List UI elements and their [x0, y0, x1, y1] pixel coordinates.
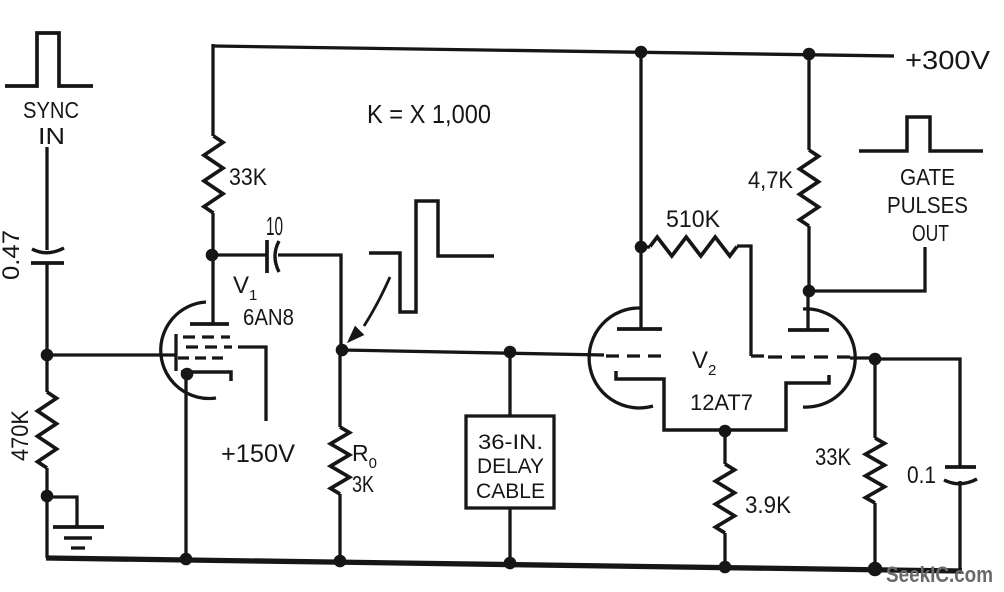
node delay bus junction	[504, 557, 517, 570]
V1 grid bracket	[174, 334, 177, 371]
capacitor C1 0.47	[31, 248, 64, 263]
resistor 33K plate load	[204, 136, 223, 213]
node delay junction	[504, 346, 517, 359]
wire box to bus	[508, 508, 511, 564]
node 510K tap	[635, 241, 648, 254]
svg-text:+150V: +150V	[221, 440, 295, 468]
svg-text:CABLE: CABLE	[476, 480, 545, 503]
differentiated pulse waveform	[369, 201, 494, 312]
svg-text:PULSES: PULSES	[887, 192, 968, 218]
resistor R 470K	[38, 355, 57, 497]
svg-text:470K: 470K	[7, 410, 34, 461]
wire 33K to bus	[873, 503, 876, 570]
wire node B to delay node	[342, 350, 604, 355]
node R0 bus junction	[334, 555, 347, 568]
wire grid node to V1 grid	[47, 353, 176, 356]
resistor 4.7K	[800, 150, 819, 226]
resistor 3.9K	[716, 464, 735, 533]
node rail-4.7K junction	[803, 48, 816, 61]
svg-text:12AT7: 12AT7	[690, 390, 753, 415]
wire 4.7K to gate node	[807, 226, 810, 291]
wire plate node to coupling cap	[212, 253, 267, 256]
node rail-V2 left plate	[635, 46, 648, 59]
node V2 cathode junction	[719, 425, 732, 438]
node grid-left junction	[41, 349, 54, 362]
V2 left cathode	[616, 371, 726, 430]
wire +300V top rail	[213, 46, 894, 56]
tube V2 right envelope arc	[803, 309, 855, 407]
wire grid node to 33K	[873, 359, 876, 438]
wire grid node to 0.1 cap	[875, 359, 960, 467]
capacitor coupling 10	[267, 240, 279, 273]
resistor 33K right	[866, 438, 885, 503]
resistor R0 3K	[331, 427, 350, 494]
svg-text:R0: R0	[352, 440, 377, 472]
svg-text:0.47: 0.47	[0, 230, 25, 280]
wire 510K to right grid	[737, 246, 751, 356]
wire 0.1 cap to bus	[958, 481, 961, 572]
V2 left plate	[617, 327, 662, 331]
svg-text:OUT: OUT	[912, 220, 949, 246]
tube V1 envelope arc	[161, 302, 216, 399]
sync input pulse waveform	[5, 33, 93, 86]
V1 grid dashes row2	[186, 345, 232, 348]
wire gate label to gate node	[809, 247, 925, 291]
wire rail corner to 33K	[211, 44, 214, 136]
V1 screen grid lead	[238, 347, 266, 421]
wire 3.9K to bus	[723, 533, 726, 568]
node gate output junction	[803, 285, 816, 298]
svg-text:33K: 33K	[815, 444, 851, 471]
wire R0 to bus	[338, 494, 341, 562]
svg-text:510K: 510K	[666, 206, 720, 233]
wire cap to node B	[278, 255, 341, 350]
wire node B to R0	[338, 350, 341, 427]
node V1 plate junction	[206, 249, 219, 262]
wire V1 cathode to bus	[184, 374, 187, 559]
svg-text:4,7K: 4,7K	[748, 167, 793, 194]
svg-text:+300V: +300V	[905, 45, 991, 75]
svg-text:V1: V1	[233, 272, 257, 304]
svg-text:V2: V2	[692, 347, 716, 379]
svg-text:IN: IN	[38, 123, 65, 149]
wire rail to 4.7K	[807, 54, 810, 150]
wire cap to grid node	[45, 263, 48, 356]
resistor 510K	[650, 237, 737, 256]
svg-text:GATE: GATE	[900, 164, 955, 190]
V2 left grid dashes	[606, 354, 666, 357]
V1 plate	[190, 322, 229, 326]
V2 left plate lead from rail	[639, 46, 642, 329]
label GATE PULSES OUT	[887, 164, 968, 246]
capacitor 0.1	[944, 467, 977, 484]
svg-text:10: 10	[266, 211, 283, 241]
node 3.9K bus junction	[719, 561, 732, 574]
svg-text:36-IN.: 36-IN.	[478, 431, 543, 454]
node V1 cathode junction	[181, 368, 194, 381]
wire 33K to plate node	[211, 213, 214, 256]
wire sync input vertical	[45, 147, 48, 250]
V2 right cathode	[725, 375, 829, 430]
wire to ground symbol	[47, 497, 77, 526]
arrow to node B	[348, 277, 390, 342]
node right grid junction	[869, 353, 882, 366]
gate output pulse waveform	[859, 117, 983, 151]
svg-text:3K: 3K	[352, 471, 375, 497]
V1 plate lead	[211, 256, 214, 324]
wire cathode node to 3.9K	[723, 431, 726, 464]
box 36-IN delay cable	[466, 416, 554, 508]
tube V2 left envelope arc	[589, 308, 653, 408]
svg-text:3.9K: 3.9K	[745, 492, 791, 519]
V2 right plate	[788, 328, 829, 332]
V1 cathode	[181, 372, 231, 381]
node V1 cathode bus junction	[180, 553, 193, 566]
V2 right grid wire with dashes	[751, 356, 875, 358]
wire 510K left lead	[641, 245, 650, 248]
wire delay node to box	[508, 352, 511, 416]
wire left branch to bottom bus	[45, 497, 48, 558]
svg-text:DELAY: DELAY	[477, 455, 544, 478]
svg-text:33K: 33K	[229, 164, 267, 191]
wire ground bus	[46, 558, 962, 571]
node 33K bus junction	[868, 562, 883, 577]
label SYNC IN	[23, 97, 79, 149]
V1 grid dashes row3	[178, 356, 224, 359]
svg-text:K = X 1,000: K = X 1,000	[367, 99, 491, 129]
svg-text:0.1: 0.1	[907, 462, 936, 489]
node ground junction	[41, 490, 54, 503]
label 36-IN. DELAY CABLE	[476, 431, 545, 503]
node B junction	[336, 344, 349, 357]
svg-text:SeekIC.com: SeekIC.com	[886, 562, 993, 587]
svg-text:6AN8: 6AN8	[243, 304, 294, 330]
ground symbol	[53, 527, 104, 548]
svg-text:SYNC: SYNC	[23, 97, 79, 123]
label R0 3K	[352, 440, 377, 497]
V1 grid dashes row1	[183, 335, 230, 338]
V2 right plate lead	[806, 291, 809, 330]
